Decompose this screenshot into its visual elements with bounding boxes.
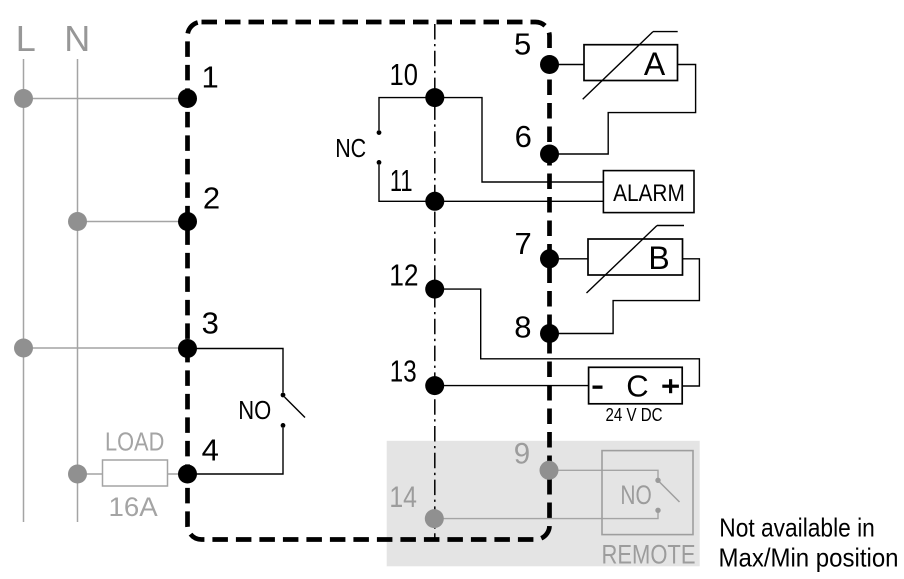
- junction on L rail at wire 1: [14, 89, 33, 108]
- wire N to terminal 2: [78, 221, 188, 223]
- terminal 3: [178, 305, 219, 358]
- wire switch to terminal 4: [188, 428, 284, 474]
- terminal 12: [389, 258, 444, 299]
- wire L to terminal 1: [24, 98, 188, 100]
- wire terminal 3 to switch: [188, 349, 284, 393]
- alarm output box: [603, 171, 694, 213]
- wire terminal 12 to supply C plus: [435, 289, 700, 386]
- wire N rail: [77, 59, 79, 522]
- sensor B (thermistor): [587, 226, 685, 294]
- terminal 14: [389, 481, 443, 528]
- supply C 24 V DC: [589, 367, 683, 425]
- terminal 11: [390, 163, 444, 211]
- terminal 1: [178, 59, 219, 108]
- svg-text:10: 10: [390, 57, 418, 92]
- terminal 9: [514, 437, 559, 479]
- wire terminal 11 to alarm: [435, 200, 603, 202]
- wire terminal 13 to supply C minus: [435, 385, 588, 387]
- svg-text:7: 7: [514, 226, 531, 261]
- wire N to load: [78, 473, 103, 475]
- terminal 2: [178, 181, 220, 231]
- svg-text:14: 14: [389, 481, 417, 514]
- junction on N rail at wire 2: [68, 212, 87, 231]
- svg-text:L: L: [16, 18, 36, 59]
- wire sensor B to terminal 8: [550, 259, 700, 334]
- load LOAD 16A: [103, 429, 168, 523]
- svg-text:5: 5: [514, 27, 531, 62]
- wire L rail: [23, 59, 25, 522]
- net N label: [64, 18, 90, 59]
- net L label: [16, 18, 36, 59]
- terminal 8: [514, 309, 559, 344]
- terminal 10: [390, 57, 445, 107]
- svg-text:A: A: [644, 46, 666, 82]
- svg-text:13: 13: [390, 353, 417, 388]
- NC contact between terminals 10 and 11: [335, 98, 435, 202]
- device outline dashed box: [188, 22, 550, 540]
- svg-text:NC: NC: [335, 133, 366, 163]
- terminal 6: [515, 119, 559, 164]
- svg-text:C: C: [626, 368, 648, 403]
- wire terminal 9 to remote switch: [549, 470, 658, 478]
- wire terminal 10 to alarm: [435, 98, 603, 182]
- remote section background: [387, 441, 700, 567]
- remote label: [602, 539, 696, 569]
- remote switch box: [602, 451, 693, 535]
- svg-text:NO: NO: [620, 480, 651, 510]
- svg-text:8: 8: [514, 309, 531, 344]
- wire terminal 5 to sensor A: [550, 64, 585, 66]
- switch NO (relay output): [238, 393, 305, 428]
- terminal 13: [390, 353, 444, 395]
- svg-text:6: 6: [515, 119, 532, 154]
- internal bus line (dash-dot): [434, 24, 436, 539]
- svg-text:16A: 16A: [109, 492, 158, 522]
- wire sensor A to terminal 6: [550, 65, 696, 155]
- svg-text:4: 4: [202, 432, 219, 467]
- svg-text:NO: NO: [238, 395, 271, 425]
- wire terminal 7 to sensor B: [550, 258, 589, 260]
- note text: [719, 513, 899, 573]
- junction on N rail at wire 4: [68, 465, 87, 484]
- svg-text:24 V DC: 24 V DC: [606, 405, 663, 425]
- svg-text:Max/Min position: Max/Min position: [719, 543, 899, 573]
- wire L to terminal 3: [24, 347, 188, 349]
- terminal 4: [178, 432, 219, 483]
- svg-text:2: 2: [203, 181, 220, 216]
- svg-text:1: 1: [201, 59, 218, 94]
- svg-text:Not available in: Not available in: [719, 513, 875, 543]
- svg-text:9: 9: [514, 437, 530, 470]
- wire terminal 14 to remote switch: [434, 513, 658, 519]
- wire load to terminal 4: [168, 473, 188, 475]
- svg-text:REMOTE: REMOTE: [602, 539, 696, 569]
- svg-text:LOAD: LOAD: [105, 429, 164, 457]
- svg-text:B: B: [648, 240, 669, 276]
- svg-text:3: 3: [202, 305, 219, 340]
- terminal 5: [514, 27, 559, 74]
- svg-text:12: 12: [389, 258, 418, 293]
- terminal 7: [514, 226, 559, 268]
- svg-text:N: N: [64, 18, 90, 59]
- junction on L rail at wire 3: [14, 339, 33, 358]
- sensor A (thermistor): [583, 32, 678, 100]
- svg-text:11: 11: [390, 163, 413, 198]
- svg-text:ALARM: ALARM: [613, 180, 685, 207]
